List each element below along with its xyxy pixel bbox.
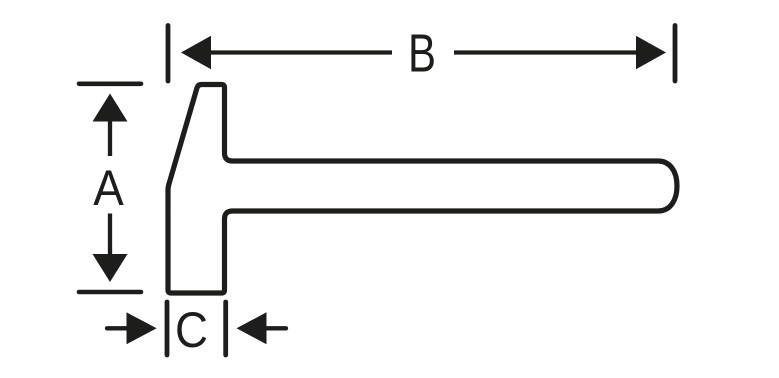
svg-text:B: B: [408, 25, 436, 84]
svg-text:C: C: [175, 301, 208, 358]
svg-text:A: A: [93, 159, 124, 216]
